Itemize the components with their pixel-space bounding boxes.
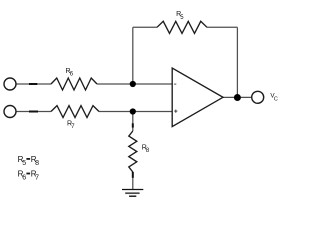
svg-text:6: 6 [22, 175, 26, 182]
svg-text:8: 8 [35, 160, 39, 167]
svg-text:6: 6 [70, 71, 74, 77]
svg-text:8: 8 [146, 148, 150, 154]
svg-text:C: C [274, 97, 278, 103]
svg-text:5: 5 [22, 160, 26, 167]
svg-text:5: 5 [180, 15, 184, 21]
svg-text:7: 7 [35, 175, 39, 182]
svg-text:7: 7 [71, 124, 75, 130]
